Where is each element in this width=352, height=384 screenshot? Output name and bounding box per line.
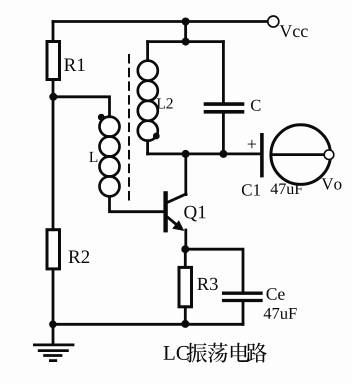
Q1 emitter arrowhead xyxy=(172,220,184,231)
caption LC xyxy=(164,346,189,360)
node: junction C bottom on mid rail xyxy=(219,150,227,158)
wire: L2 bottom down to mid rail xyxy=(146,141,149,154)
wire: R2 bottom to ground xyxy=(52,269,55,345)
node: phase dot of L (top) xyxy=(98,114,105,121)
label Q1 xyxy=(184,206,205,222)
wire: junction to top of inductor L xyxy=(53,97,109,117)
Q1 emitter wire down xyxy=(184,230,187,249)
wire: down to L2 top xyxy=(146,42,149,61)
Q1 collector wire up to mid rail xyxy=(184,154,187,195)
node: junction collector on mid rail xyxy=(182,150,190,158)
resistor R2 xyxy=(47,230,60,269)
wire: L bottom to Q1 base xyxy=(110,196,166,211)
wire: R1 bottom to R2 top along left rail xyxy=(52,80,55,230)
label C xyxy=(251,100,260,111)
Q1 collector diagonal xyxy=(167,194,187,203)
node: emitter junction xyxy=(181,245,189,253)
node: junction on top rail xyxy=(182,18,190,26)
caption char 电 xyxy=(231,343,249,362)
wire: R3 bottom to bottom rail xyxy=(184,307,187,325)
wire: left rail upper (top rail corner down to R1) xyxy=(52,22,55,42)
caption char 路 xyxy=(246,343,266,363)
capacitor Ce xyxy=(224,293,261,300)
node: junction R3 bottom xyxy=(181,320,189,328)
label R3 xyxy=(197,278,217,290)
node: phase dot of L2 (bottom) xyxy=(153,133,160,140)
wire: C bottom to mid rail xyxy=(222,113,225,154)
label + of C1 xyxy=(248,140,256,148)
label Vcc xyxy=(280,25,308,37)
wire: top rail junction drop to L2/C rail xyxy=(184,22,187,42)
Vcc terminal circle xyxy=(268,16,279,27)
wire: C branch from top rail down xyxy=(222,42,225,104)
caption char 振 xyxy=(187,343,207,363)
wire: emitter junction to Ce branch xyxy=(185,249,243,292)
label R2 xyxy=(69,250,90,263)
label 47uF of Ce xyxy=(264,308,297,319)
wire: top rail from R1 top-left corner to Vcc terminal xyxy=(53,20,268,23)
output port circle Vo xyxy=(271,125,331,185)
ground xyxy=(34,345,73,361)
resistor R1 xyxy=(47,42,60,80)
label L xyxy=(89,152,97,162)
node: ground junction xyxy=(49,321,57,329)
transistor Q1 xyxy=(166,154,186,249)
wire: bottom rail xyxy=(53,323,243,326)
inductor L2 (4 turns) xyxy=(138,61,158,141)
wire: Ce bottom to bottom rail corner xyxy=(242,301,245,324)
capacitor C xyxy=(206,104,243,112)
output terminal small circle xyxy=(324,150,334,160)
caption char 荡 xyxy=(208,343,228,363)
wire: mid rail into output circle xyxy=(271,153,326,156)
label Ce xyxy=(267,288,285,300)
transformer coupling dashed line xyxy=(128,55,130,205)
label C1 xyxy=(242,184,260,195)
label L2 xyxy=(157,98,173,108)
Q1 emitter diagonal xyxy=(167,216,181,227)
label Vo xyxy=(321,178,341,189)
resistor R3 xyxy=(179,267,192,306)
Q1 base bar xyxy=(163,193,167,230)
wire: mid rail from L2 to C1 plate xyxy=(148,152,260,155)
node: junction R1 bottom / L tap xyxy=(49,93,57,101)
node: junction on L2/C top rail xyxy=(182,38,190,46)
wire: L2/C top rail xyxy=(148,40,224,43)
label R1 xyxy=(64,58,84,71)
inductor L (4 turns) xyxy=(100,117,120,197)
label 47uF of C1 xyxy=(271,183,303,194)
wire: emitter junction down to R3 xyxy=(184,249,187,267)
capacitor C1 plate xyxy=(260,135,264,176)
